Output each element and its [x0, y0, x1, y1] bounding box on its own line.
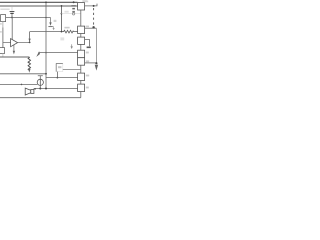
- reference element blob1: [72, 8, 75, 9]
- wire box bottom to opamp input: [2, 22, 4, 28]
- wire box A output to right edge: [85, 27, 97, 29]
- wire box G stub down: [56, 72, 58, 78]
- node on speaker wire: [21, 84, 23, 86]
- wire to box E: [46, 77, 78, 79]
- current source circle: [37, 79, 43, 85]
- bar above current source: [38, 75, 43, 77]
- wire box D output: [85, 62, 97, 64]
- wire box B output: [85, 40, 90, 47]
- node signal wire crosses bus: [45, 17, 47, 19]
- label tiny text top left: [0, 9, 9, 11]
- node capacitor to signal wire: [11, 17, 13, 19]
- node on resistor R2: [28, 61, 30, 63]
- wire feedback vertical to mid rail: [29, 32, 31, 43]
- label arrow above control line: [71, 44, 73, 46]
- wire box column E to F: [80, 81, 82, 85]
- wire box column T to A: [80, 10, 82, 26]
- wire op-amp output: [18, 42, 30, 44]
- label above mid rail: [53, 26, 55, 28]
- capacitor C1 top stub: [11, 6, 13, 11]
- arrow terminal below signal: [49, 22, 51, 25]
- current source stem: [39, 76, 41, 89]
- faint wire x61 to box column: [62, 13, 81, 15]
- node control line crosses bus: [45, 52, 47, 54]
- node op-amp output junction: [29, 39, 31, 42]
- label top right text: [84, 1, 88, 3]
- wire mid rail: [30, 31, 64, 33]
- label above top box: [82, 0, 87, 2]
- label right of box D: [86, 60, 89, 62]
- label above resistor R1: [64, 27, 69, 29]
- reference element bar: [71, 5, 75, 7]
- resistor R2 arrow: [28, 69, 31, 73]
- node circle stem junction: [39, 88, 41, 90]
- wire to box F: [34, 88, 78, 90]
- line at resistor bottom: [0, 73, 46, 75]
- label right of box C: [86, 52, 89, 54]
- ground stub from op-amp: [13, 45, 15, 51]
- capacitor C1 plates: [10, 11, 15, 13]
- node junction on right top segment: [93, 5, 95, 7]
- node x61 bottom: [61, 31, 63, 33]
- wire right edge vertical: [95, 28, 97, 63]
- small box G: [56, 63, 63, 71]
- wire right top segment: [85, 4, 98, 6]
- label right of box F: [86, 87, 89, 89]
- label near arrow terminal: [54, 20, 57, 22]
- pin label left edge lower: [0, 31, 2, 32]
- node x61 top: [61, 5, 63, 7]
- resistor R2 vertical: [28, 57, 30, 71]
- wire down to op-amp top: [11, 18, 13, 41]
- dashed feedback line x93.6: [93, 8, 95, 26]
- bottom rail: [0, 97, 81, 99]
- node speaker output: [34, 88, 36, 90]
- node bus meets wire: [45, 88, 47, 90]
- capacitor C1 bottom stub: [11, 14, 13, 18]
- wire corner down from signal: [50, 18, 52, 23]
- block box T: [78, 3, 85, 10]
- block box E: [78, 73, 85, 80]
- label right of box E: [86, 75, 89, 77]
- wire box F to bottom rail: [80, 92, 82, 98]
- node stub meets line: [57, 77, 59, 79]
- pin label left edge upper: [0, 23, 2, 24]
- block box B: [78, 37, 85, 44]
- label right of box A: [86, 26, 89, 28]
- node bus top: [45, 1, 47, 3]
- block box C: [78, 50, 85, 58]
- ground arrow right edge: [95, 65, 98, 71]
- block box F: [78, 84, 85, 91]
- wire rail drop at x61: [61, 6, 63, 32]
- wire box column D to E: [80, 65, 82, 73]
- mic input box: [1, 15, 6, 22]
- node line meets bus: [45, 73, 47, 75]
- reference element at x73 dot on rail: [73, 1, 75, 3]
- control line to box C with arrow: [38, 52, 77, 54]
- wire left to current source: [0, 83, 37, 85]
- resistor R1 on mid rail: [64, 30, 74, 33]
- wire box column B to C: [80, 44, 82, 50]
- ground rail left: [0, 56, 29, 58]
- op-amp buffer U1: [11, 39, 18, 47]
- block box A: [78, 26, 85, 33]
- block box H left edge: [0, 48, 5, 54]
- wire box G to column: [63, 69, 81, 71]
- node x61 mid: [61, 13, 63, 15]
- faint label mid area: [60, 37, 64, 40]
- reference element circle terminal: [72, 13, 74, 15]
- wire top supply rail: [0, 1, 78, 3]
- stub box H to rail: [2, 54, 4, 58]
- wire second rail: [0, 5, 78, 7]
- block box D: [78, 58, 85, 65]
- wire box column A to B: [80, 34, 82, 38]
- wire signal from box: [6, 17, 51, 19]
- wire opamp input branch: [3, 42, 11, 44]
- node box D output junction: [95, 62, 97, 64]
- long vertical bus x46: [45, 2, 47, 88]
- reference element blob2: [72, 11, 75, 13]
- speaker LS1: [31, 90, 34, 94]
- label inside box G: [58, 66, 61, 68]
- terminal bar below box B output: [87, 46, 91, 48]
- label near x61 node: [65, 11, 69, 13]
- node dashed line meets A output: [92, 26, 94, 28]
